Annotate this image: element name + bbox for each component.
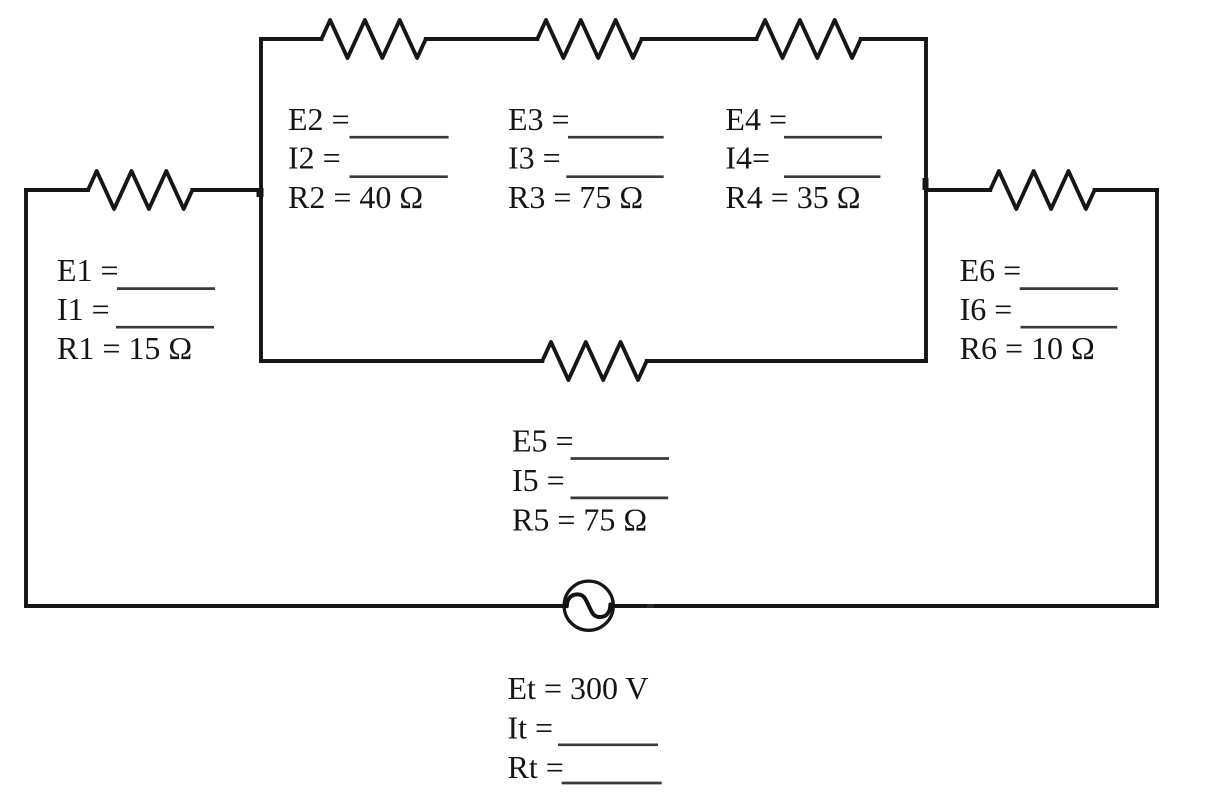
blank line for E4 <box>784 136 882 139</box>
svg-text:I2 =: I2 = <box>288 140 341 176</box>
wire left vertical <box>24 190 28 606</box>
node junction left (R1 wire joins inner loop) <box>257 188 264 197</box>
svg-text:E2 =: E2 = <box>288 101 350 137</box>
wire R1 left lead <box>26 188 88 192</box>
wire top lead to R2 <box>261 37 321 41</box>
blank line for I1 <box>116 326 214 329</box>
resistor R5 <box>542 342 646 380</box>
blank line for It <box>558 743 658 746</box>
svg-text:E4 =: E4 = <box>725 101 787 137</box>
node junction right (R6 wire joins inner loop) <box>923 178 929 190</box>
svg-text:R5 = 75 Ω: R5 = 75 Ω <box>512 502 647 538</box>
svg-text:R4 = 35 Ω: R4 = 35 Ω <box>725 179 860 215</box>
svg-text:E6 =: E6 = <box>960 252 1022 288</box>
blank line for I6 <box>1021 326 1118 329</box>
svg-text:Rt =: Rt = <box>508 749 564 785</box>
wire R4 to node B <box>861 37 926 41</box>
svg-text:E1 =: E1 = <box>57 252 119 288</box>
svg-text:R6 = 10 Ω: R6 = 10 Ω <box>960 330 1095 366</box>
wire inner left vertical (node A) <box>259 39 263 361</box>
svg-text:It =: It = <box>508 710 554 746</box>
svg-text:E5 =: E5 = <box>512 423 574 459</box>
blank line for I2 <box>350 175 448 178</box>
svg-text:R3 = 75 Ω: R3 = 75 Ω <box>508 179 643 215</box>
svg-text:R2 = 40 Ω: R2 = 40 Ω <box>288 179 423 215</box>
wire R5 to node B <box>647 359 926 363</box>
resistor R4 <box>756 20 860 58</box>
wire bottom left segment <box>26 604 565 608</box>
blank line for I5 <box>571 497 669 500</box>
svg-text:I4=: I4= <box>725 140 770 176</box>
blank line for E3 <box>568 136 664 139</box>
svg-text:E3 =: E3 = <box>508 101 570 137</box>
junction dot on bottom wire <box>647 604 654 608</box>
wire inner right vertical (node B) <box>924 39 928 361</box>
wire R1 right lead to node A <box>192 188 261 192</box>
svg-text:Et = 300 V: Et = 300 V <box>508 670 649 706</box>
wire R3 to R4 <box>642 37 757 41</box>
wire bottom right segment <box>613 604 1157 608</box>
svg-text:I5 =: I5 = <box>512 462 565 498</box>
resistor R3 <box>537 20 641 58</box>
wire right vertical <box>1155 190 1159 606</box>
ac source Et <box>564 581 613 630</box>
wire R6 right lead <box>1095 188 1157 192</box>
blank line for I3 <box>566 175 663 178</box>
wire node B to R6 <box>926 188 990 192</box>
svg-text:R1 = 15 Ω: R1 = 15 Ω <box>57 330 192 366</box>
resistor R1 <box>88 171 192 209</box>
blank line for E6 <box>1020 287 1118 290</box>
resistor R6 <box>990 171 1094 209</box>
blank line for E5 <box>571 457 670 460</box>
resistor R2 <box>321 20 425 58</box>
svg-text:I3 =: I3 = <box>508 140 561 176</box>
wire inner bottom left to R5 <box>261 359 542 363</box>
svg-text:I6 =: I6 = <box>960 291 1013 327</box>
blank line for E1 <box>117 287 215 290</box>
blank line for E2 <box>350 136 449 139</box>
blank line for Rt <box>562 782 662 785</box>
svg-text:I1 =: I1 = <box>57 291 110 327</box>
wire R2 to R3 <box>426 37 538 41</box>
blank line for I4 <box>784 175 880 178</box>
